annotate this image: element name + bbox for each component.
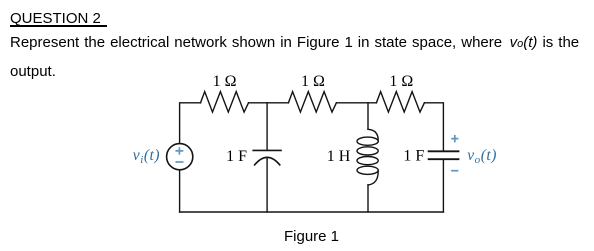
inductor L1 loop 1 [357,137,378,145]
output minus sign [451,170,458,172]
inductor L1 top wire [367,103,369,130]
inductor L1 loop 3 [357,157,378,165]
heading QUESTION 2 [10,11,101,26]
capacitor C1 curved plate [255,157,280,165]
figure caption [284,229,339,244]
paragraph line 2 [10,64,56,79]
bottom rail wire [180,211,444,213]
voltage source circle vi [167,144,193,170]
svg-text:1 H: 1 H [327,148,351,165]
source plus sign [176,147,184,154]
capacitor C2 bottom plate [429,158,459,160]
svg-text:1 F: 1 F [226,148,247,165]
output plus sign [451,135,458,142]
svg-text:1 Ω: 1 Ω [389,73,413,90]
inductor L1 loop 4 [357,166,378,174]
svg-text:vo(t): vo(t) [467,147,497,166]
svg-text:1 Ω: 1 Ω [301,73,325,90]
inductor L1 top hook [368,129,378,141]
resistor R1 1ohm [201,92,249,113]
capacitor C2 bottom wire [442,159,444,212]
svg-text:1 F: 1 F [403,148,424,165]
inductor L1 bottom hook [368,170,378,185]
resistor R2 1ohm [288,92,336,113]
wire source to bottom rail [179,170,181,212]
capacitor C1 straight plate [253,149,281,151]
heading underline [10,25,107,26]
svg-text:vi(t): vi(t) [133,147,160,166]
wire top-left segment [180,103,201,144]
source minus sign [176,161,184,163]
resistor R3 1ohm [376,92,424,113]
svg-text:1 Ω: 1 Ω [213,73,237,90]
wire top-right corner [424,103,443,151]
wire R2 to R3 with node at inductor branch [336,102,376,104]
inductor L1 loop 2 [357,147,378,155]
paragraph line 1 [10,35,579,52]
inductor L1 bottom wire [367,185,369,212]
wire R1 to R2 with node at cap1 branch [249,102,289,104]
capacitor C2 top plate [429,150,459,152]
capacitor C1 bottom wire [266,158,268,212]
capacitor C1 branch top wire [266,103,268,151]
